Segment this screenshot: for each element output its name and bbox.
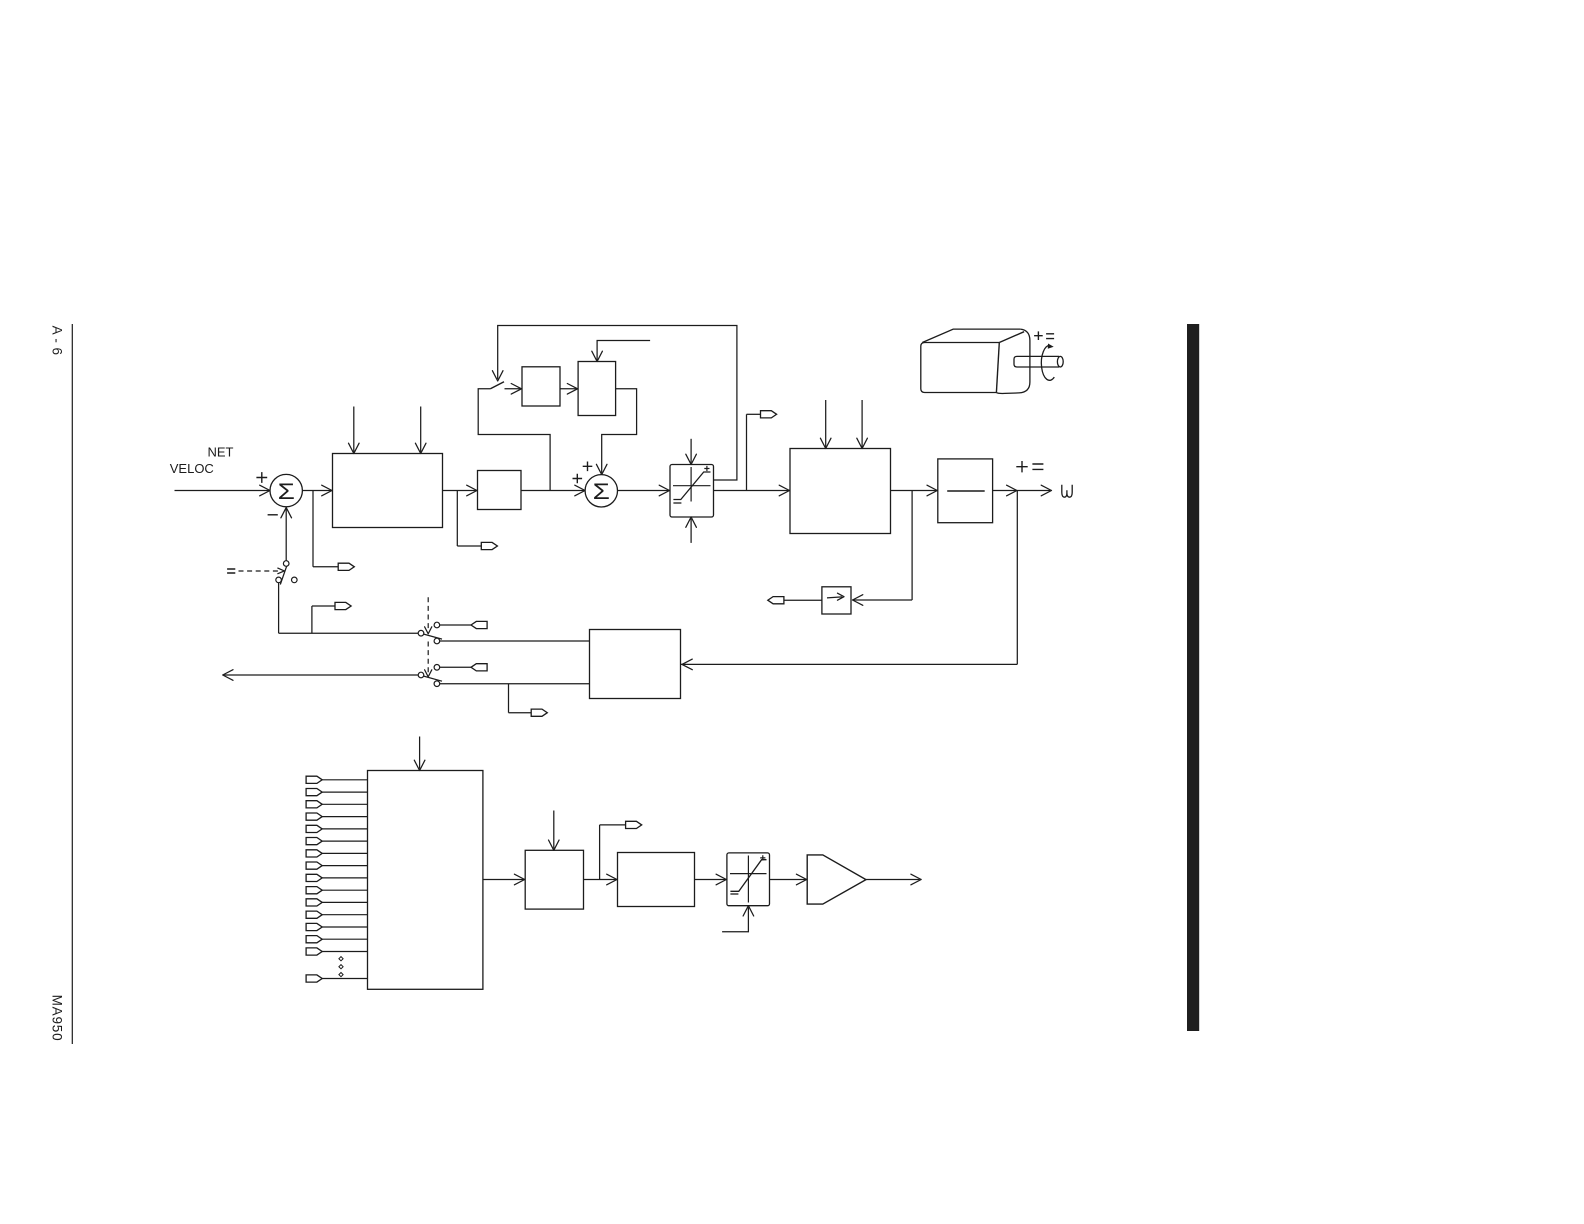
wire IN6 to B9: [322, 840, 368, 842]
limiter L2 horizontal axis: [730, 873, 767, 875]
plus sign at S2 left input: [573, 474, 583, 484]
arrow into block B11: [607, 874, 617, 885]
wire B5 to block B6: [560, 388, 578, 390]
input wire NET VELOC: [175, 490, 271, 492]
limiter L1 vertical axis: [690, 467, 692, 502]
switch SW1 pole contact: [418, 630, 424, 636]
wire param arrow 2 into B1: [420, 407, 422, 453]
wire tap stub to flag TP2: [457, 545, 481, 547]
arrow into B1 top left: [349, 443, 360, 453]
arrow into B10 top: [549, 840, 560, 850]
arrow into B8 right: [682, 659, 692, 670]
wire B10 to block B11: [584, 879, 618, 881]
node tap output feedback: [1016, 491, 1018, 665]
input flag IN9: [306, 874, 322, 881]
wire tap stub to flag TP9: [312, 605, 335, 607]
wire tap stub to flag TP5: [509, 712, 532, 714]
input flag IN2: [306, 789, 322, 796]
wire param arrow 2 into B3: [861, 400, 863, 447]
plus sign at S2 top input: [583, 462, 593, 472]
switch SW0 pole contact: [276, 577, 282, 583]
equals sign at motor: [1046, 334, 1054, 339]
input flag IN7: [306, 850, 322, 857]
wire IN2 to B9: [322, 791, 368, 793]
svg-text:NET: NET: [208, 444, 234, 459]
motor body front face: [921, 343, 1000, 393]
switch SW1 throw contact upper: [434, 622, 440, 628]
limiter L2 saturation curve: [730, 860, 766, 892]
flag TP7: [471, 664, 487, 671]
wire A1 output: [866, 879, 920, 881]
omega output symbol: [1062, 485, 1072, 497]
wire IN7 to B9: [322, 852, 368, 854]
wire SW3 to block B5: [505, 388, 523, 390]
arrow into block B2: [467, 485, 477, 496]
arrow into block B10: [514, 874, 524, 885]
arrow into block B4: [927, 485, 937, 496]
arrow into block B1: [322, 485, 332, 496]
limiter L1 horizontal axis: [673, 485, 711, 487]
node tap after S1: [312, 491, 314, 567]
input flag IN3: [306, 801, 322, 808]
arrow into B1 top right: [415, 443, 426, 453]
ellipsis diamond 3: [339, 973, 343, 977]
node tap after B2 to observer switch: [478, 389, 550, 491]
switch SW0 top contact: [283, 561, 289, 567]
node tap after B10: [599, 825, 601, 880]
motor face divider: [996, 343, 999, 393]
flag TP3: [761, 411, 777, 418]
motor end cap: [996, 329, 1030, 393]
wire L1 to block B3: [714, 490, 791, 492]
switch SW1 blade: [421, 633, 442, 639]
switch SW1 throw contact lower: [434, 638, 440, 644]
motor rotation arc: [1041, 346, 1054, 381]
limiter L2 plus label: [760, 855, 765, 860]
wire param arrow 1 into B3: [825, 400, 827, 447]
wire B9 to block B10: [483, 879, 525, 881]
wire IN14 to B9: [322, 938, 368, 940]
arrow control onto SW0: [278, 568, 285, 574]
arrow into B7 right: [853, 595, 863, 606]
wire param arrow 1 into B1: [353, 407, 355, 453]
switch SW1 input wire: [279, 632, 419, 634]
wire limit param into L1 bottom: [690, 519, 692, 543]
wire tap stub to flag TP8: [600, 824, 626, 826]
limiter L2 minus label: [730, 893, 738, 895]
wire limit param into L1 top: [690, 439, 692, 463]
arrow into S2 top: [596, 464, 607, 474]
flag TP6: [471, 621, 487, 628]
plus sign at output: [1016, 461, 1027, 472]
arrow into limiter L1: [659, 485, 669, 496]
flag TP2: [481, 542, 497, 549]
svg-text:Σ: Σ: [593, 480, 610, 504]
arrow at A1 output end: [911, 874, 921, 885]
wire into B7 right side: [853, 599, 913, 601]
wire SW0 to switch line: [278, 582, 280, 633]
block B3: [790, 449, 891, 534]
node tap on lower output: [508, 684, 510, 713]
wire IN1 to B9: [322, 779, 368, 781]
wire tap stub to flag TP1: [313, 566, 338, 568]
input flag IN15: [306, 948, 322, 955]
arrow into amplifier A1: [796, 874, 806, 885]
input flag IN16: [306, 975, 322, 982]
wire B2 to summer S2: [521, 490, 585, 492]
input flag IN13: [306, 923, 322, 930]
wire stub into B6 top: [597, 341, 650, 361]
wire IN15 to B9: [322, 951, 368, 953]
limiter L2 vertical axis: [747, 856, 749, 903]
wire IN3 to B9: [322, 803, 368, 805]
limiter L1 saturation curve: [673, 472, 710, 500]
svg-text:MA950: MA950: [49, 995, 64, 1042]
wire SW2 upper to flag TP7: [439, 666, 471, 668]
arrow control onto SW2: [425, 670, 432, 677]
block B2: [478, 471, 522, 510]
wire limit param into L2 bottom: [722, 907, 748, 931]
block B1: [333, 454, 443, 528]
svg-text:A - 6: A - 6: [49, 326, 64, 356]
limiter L2 box: [727, 853, 770, 906]
arrow into summer S1: [260, 485, 270, 496]
wire IN10 to B9: [322, 889, 368, 891]
wire IN11 to B9: [322, 901, 368, 903]
wire S1 feedback vertical: [285, 509, 287, 561]
arrow into summer S2: [575, 485, 585, 496]
feedback block B8: [590, 630, 681, 699]
node tap down to rate block B7: [911, 491, 913, 601]
input flag IN12: [306, 911, 322, 918]
svg-text:Σ: Σ: [278, 480, 295, 504]
wire IN12 to B9: [322, 914, 368, 916]
wire SW1 upper to flag TP6: [439, 624, 471, 626]
wire B7 to flag TP4: [784, 599, 822, 601]
left margin rule: [71, 324, 73, 1044]
switch SW0 blade: [280, 565, 287, 585]
arrow into L2 bottom: [743, 906, 754, 916]
flag TP1: [338, 563, 354, 570]
switch SW3 blade: [490, 382, 504, 389]
wire IN16 to B9: [322, 978, 368, 980]
wire IN9 to B9: [322, 877, 368, 879]
rate limit block B7: [822, 587, 851, 614]
wire IN4 to B9: [322, 816, 368, 818]
wire S1 to block B1: [302, 490, 332, 492]
node tap after L1: [746, 414, 748, 490]
arrow into B3 top right: [857, 438, 868, 448]
block B11: [618, 853, 695, 907]
wire B11 to limiter L2: [695, 879, 727, 881]
motor shaft: [1014, 356, 1059, 367]
flag TP4: [768, 597, 784, 604]
wire L2 to amplifier A1: [770, 879, 808, 881]
right black sidebar: [1187, 324, 1199, 1031]
B7 arrow symbol: [827, 597, 842, 598]
wire B3 to block B4: [891, 490, 938, 492]
arrow on output wire at tap: [1007, 485, 1017, 496]
arrow into L1 bottom: [686, 517, 697, 527]
wire IN13 to B9: [322, 926, 368, 928]
summing junction S2: [585, 475, 617, 507]
arrow into block B5: [511, 384, 521, 395]
switch SW2 output arrow wire: [224, 674, 418, 676]
switch SW2 throw contact upper: [434, 665, 440, 671]
arrow out left: [223, 670, 233, 681]
block B4: [938, 459, 993, 523]
flag TP8: [626, 821, 642, 828]
dashed control line lower: [427, 642, 429, 673]
input flag IN5: [306, 825, 322, 832]
mux block B9: [368, 771, 483, 990]
arrow into B9 top: [414, 760, 425, 770]
switch SW2 pole contact: [418, 672, 424, 678]
wire B8 upper output: [439, 640, 589, 642]
limiter L1 plus label: [704, 466, 709, 471]
plus sign at S1 left input: [256, 472, 267, 483]
block B6: [578, 362, 616, 416]
wire B1 to block B2: [443, 490, 478, 492]
flag TP5: [531, 709, 547, 716]
input flag IN1: [306, 776, 322, 783]
ellipsis diamond 1: [339, 957, 343, 961]
arrow onto switch SW3: [492, 371, 503, 381]
arrow into S1 bottom: [281, 508, 292, 518]
wire S2 to limiter L1: [618, 490, 671, 492]
node tap after B1: [456, 491, 458, 547]
amplifier A1: [807, 855, 866, 904]
wire B4 to output: [993, 490, 1051, 492]
wire IN8 to B9: [322, 865, 368, 867]
equals label at SW0: [227, 569, 235, 573]
arrow into block B6: [567, 384, 577, 395]
limiter L1 minus label: [673, 502, 681, 504]
svg-text:VELOC: VELOC: [170, 461, 214, 476]
arrow into B3 top left: [820, 438, 831, 448]
wire B6 output to S2 top: [602, 389, 637, 473]
input flag IN4: [306, 813, 322, 820]
motor top face: [922, 329, 1020, 342]
equals sign at output: [1032, 464, 1043, 469]
wire feedback to block B8: [681, 663, 1018, 665]
wire IN5 to B9: [322, 828, 368, 830]
limiter L1 box: [670, 465, 714, 518]
wire param into B10 top: [553, 811, 555, 849]
node tap on SW1 wire: [311, 606, 313, 633]
feedback top line from limiter L1: [498, 326, 737, 481]
switch SW2 blade: [421, 675, 442, 681]
motor top-right slant: [999, 332, 1024, 343]
block B10: [525, 850, 583, 909]
wire param into B9 top: [419, 737, 421, 769]
wire B8 lower output: [439, 683, 589, 685]
motor shaft end ellipse: [1057, 356, 1063, 367]
minus sign at S1 bottom input: [268, 514, 278, 516]
dashed control line upper: [427, 597, 429, 629]
arrow into limiter L2: [716, 874, 726, 885]
arrow into B6 top: [592, 351, 603, 361]
ellipsis diamond 2: [339, 965, 343, 969]
arrow into L1 top: [686, 454, 697, 464]
input flag IN8: [306, 862, 322, 869]
plus sign at motor: [1034, 331, 1043, 340]
wire tap stub to flag TP3: [747, 413, 761, 415]
block B5: [522, 367, 560, 406]
motor rotation arrowhead: [1048, 344, 1054, 349]
summing junction S1: [270, 474, 302, 506]
input flag IN6: [306, 838, 322, 845]
arrow control onto SW1: [425, 627, 432, 634]
flag TP9: [335, 602, 351, 609]
dashed control line to SW0: [239, 570, 279, 572]
arrow at output end: [1041, 485, 1051, 496]
block B4 dash symbol: [947, 490, 985, 492]
input flag IN14: [306, 936, 322, 943]
input flag IN11: [306, 899, 322, 906]
arrow into block B3: [779, 485, 789, 496]
switch SW2 throw contact lower: [434, 681, 440, 687]
switch SW0 alt contact: [292, 577, 298, 583]
input flag IN10: [306, 887, 322, 894]
